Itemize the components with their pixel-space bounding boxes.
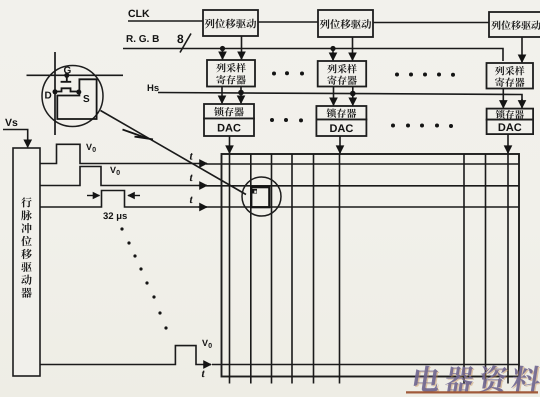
watermark underline — [406, 391, 538, 393]
wire RGB to sampler 2 — [332, 49, 334, 61]
wire Hs to latch3 — [521, 99, 523, 108]
magnify arrow — [123, 130, 154, 140]
arrow row line 1 — [198, 163, 207, 165]
column line 9 — [507, 154, 509, 384]
panel outline — [222, 154, 520, 377]
wire row line bottom with pulse — [40, 346, 204, 365]
arrow row line bottom — [204, 364, 211, 366]
wire row gate line segment — [27, 74, 124, 76]
pixel cell TFT notch — [254, 191, 256, 193]
wire RGB to sampler 1 — [222, 49, 224, 60]
wire sampler1 to latch1 right — [240, 87, 242, 104]
block column sampling register S2 — [318, 61, 367, 87]
wire RGB bus — [123, 49, 503, 62]
block row pulse shift driver — [13, 148, 40, 376]
node RGB junction 1 — [220, 46, 225, 51]
wire column data line segment — [54, 52, 56, 135]
wire sampler2 to latch2 right — [352, 87, 354, 106]
ellipsis dots DAC row right — [391, 124, 453, 129]
node G — [64, 73, 69, 78]
block column shift driver U3 — [489, 12, 540, 37]
wire DAC2 to panel — [339, 136, 341, 153]
label D — [45, 92, 51, 99]
wire CLK segment 3 — [373, 22, 489, 24]
column line 1 — [229, 154, 231, 384]
label t bottom — [202, 371, 205, 378]
wire sampler3 to latch3 left — [502, 89, 504, 108]
wire U2 to sampler 2 — [352, 37, 354, 60]
block column shift driver U2 — [318, 10, 373, 37]
wire row line 1 in panel — [206, 163, 519, 165]
arrow row line 2 — [198, 185, 207, 187]
label 32us — [103, 212, 108, 219]
block latch L3 — [487, 109, 533, 120]
ellipsis dots sampler row right — [395, 73, 455, 77]
wire row line 2 with pulse — [40, 167, 198, 186]
block column sampling register S3 — [487, 63, 534, 89]
column line 3 — [271, 154, 273, 384]
block DAC D1 — [204, 119, 254, 137]
label V0 row 2 — [110, 167, 116, 173]
column line 6 — [339, 154, 341, 384]
wire DAC3 to panel — [507, 134, 509, 153]
column line 2 — [250, 154, 252, 384]
bus width slash — [180, 34, 191, 53]
transistor Q1 gate — [61, 75, 72, 82]
wire row line 3 in panel — [206, 206, 519, 208]
label t row 3 — [190, 197, 193, 204]
pixel electrode plate — [57, 79, 96, 119]
label G — [64, 67, 71, 74]
wire row line 1 with pulse — [40, 144, 198, 163]
column line 8 — [485, 154, 487, 384]
wire row line 3 with pulse — [40, 191, 198, 208]
label Hs — [148, 84, 154, 91]
ellipsis dots sampler row left — [272, 71, 304, 75]
label bus width 8 — [177, 35, 183, 43]
wire sampler1 to latch1 left — [221, 87, 223, 104]
ellipsis dots DAC row left — [270, 118, 303, 122]
wire CLK — [128, 20, 203, 22]
node S — [76, 90, 81, 95]
transistor Q1 channel — [55, 88, 79, 91]
dimension arrow left 32us — [87, 195, 100, 197]
node Hs junction 1 — [238, 90, 244, 96]
wire DAC1 to panel — [229, 136, 231, 153]
column line 7 — [463, 154, 465, 384]
block DAC D3 — [487, 120, 533, 135]
ellipsis dots diagonal — [120, 227, 167, 329]
column line 4 — [291, 154, 293, 384]
label CLK — [128, 10, 135, 17]
pixel cell circle — [242, 177, 281, 216]
wire U3 to sampler 3 — [521, 37, 523, 62]
wire U1 to sampler 1 — [241, 36, 243, 59]
node RGB junction 2 — [330, 46, 335, 51]
wire row line bottom in panel — [212, 364, 519, 366]
label t row 1 — [190, 153, 193, 160]
TFT zoom circle — [42, 66, 103, 127]
wire Vs input — [3, 130, 28, 148]
wire row line 2 in panel — [206, 185, 519, 187]
label Vs — [5, 119, 12, 126]
wire sampler2 to latch2 left — [333, 87, 335, 106]
node D — [53, 89, 58, 94]
callout leader line — [101, 111, 247, 195]
label V0 bottom — [202, 340, 208, 346]
wire CLK segment 2 — [258, 21, 318, 23]
block column shift driver U1 — [203, 10, 258, 36]
dimension arrow right 32us — [128, 195, 140, 197]
column line 5 — [313, 154, 315, 384]
block latch L1 — [204, 104, 254, 119]
watermark text — [412, 365, 540, 393]
label V0 row 1 — [86, 144, 92, 150]
block column sampling register S1 — [207, 60, 255, 87]
block DAC D2 — [316, 120, 366, 137]
label S — [83, 95, 89, 102]
pixel cell TFT — [252, 189, 257, 194]
label t row 2 — [190, 175, 193, 182]
pixel cell electrode — [251, 187, 269, 207]
label RGB — [127, 35, 133, 42]
block latch L2 — [316, 106, 366, 120]
node Hs junction 2 — [350, 91, 356, 97]
wire Hs — [158, 93, 522, 105]
arrow row line 3 — [198, 206, 207, 208]
